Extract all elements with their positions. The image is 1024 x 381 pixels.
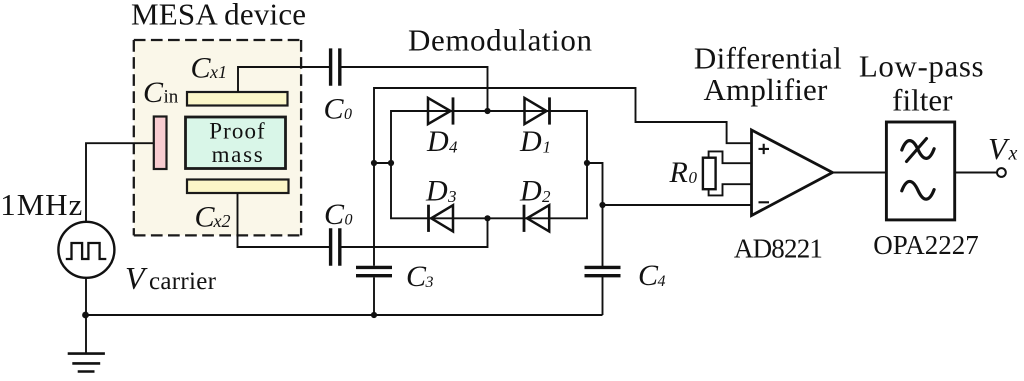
bottom rail wire (86, 314, 603, 316)
svg-text:0: 0 (344, 106, 352, 123)
svg-text:D: D (426, 125, 449, 158)
capacitor C3 (356, 267, 392, 275)
sine symbol (902, 181, 934, 199)
low-pass filter box (886, 122, 954, 220)
svg-text:filter: filter (892, 82, 953, 117)
junction C3 bottom (371, 312, 377, 318)
svg-text:MESA device: MESA device (131, 0, 306, 32)
svg-text:carrier: carrier (149, 268, 217, 295)
svg-text:AD8221: AD8221 (734, 233, 822, 263)
wire: op-amp output to filter (833, 172, 887, 174)
capacitor C4 (585, 267, 621, 275)
svg-text:C: C (195, 201, 216, 234)
op-amp U1 triangle (752, 130, 833, 216)
wire: bridge right to C4 and minus input (587, 163, 751, 315)
svg-text:2: 2 (542, 187, 551, 206)
junction bridge left (388, 160, 394, 166)
svg-text:x: x (1008, 143, 1018, 165)
svg-text:C: C (406, 260, 427, 293)
diode D4 (428, 97, 453, 124)
junction bridge top center (484, 108, 490, 114)
minus sign (759, 201, 770, 203)
wire: source to Cin plate (86, 143, 154, 222)
svg-text:D: D (519, 175, 542, 208)
svg-text:R: R (669, 156, 688, 189)
diode D2 (524, 205, 549, 232)
svg-text:3: 3 (425, 274, 434, 291)
svg-text:0: 0 (345, 212, 353, 229)
svg-text:4: 4 (658, 273, 666, 290)
capacitor C0 bottom (331, 228, 340, 266)
wire: left outer vertical and top feed to plus input (374, 88, 751, 266)
svg-text:mass: mass (212, 142, 265, 167)
wire: filter output (955, 172, 997, 174)
diode D3 (429, 205, 454, 232)
junction minus branch (599, 202, 605, 208)
capacitor Cin plate (154, 117, 167, 170)
diode D1 (525, 97, 550, 124)
MESA device dashed enclosure (134, 40, 301, 235)
output terminal circle (997, 168, 1006, 177)
svg-text:x2: x2 (213, 211, 231, 231)
svg-text:4: 4 (449, 138, 458, 157)
junction bridge right (584, 160, 590, 166)
svg-text:1MHz: 1MHz (0, 187, 83, 222)
crossed sine symbol (902, 139, 934, 162)
svg-text:C: C (324, 93, 345, 126)
svg-text:V: V (988, 131, 1010, 166)
wire: bridge left stub (374, 162, 391, 164)
svg-text:3: 3 (447, 187, 457, 206)
wire: Cx1 to C0 top to bridge top (238, 67, 488, 111)
junction bridge bottom center (484, 215, 490, 221)
resistor R0 (703, 151, 751, 195)
svg-text:1: 1 (543, 138, 552, 157)
wire: Cx2 to C0 bottom to bridge bottom (238, 193, 488, 247)
svg-text:Proof: Proof (209, 119, 266, 144)
square wave glyph (66, 243, 107, 259)
svg-text:in: in (164, 87, 179, 108)
svg-text:Demodulation: Demodulation (408, 23, 593, 58)
capacitor Cx1 top plate (187, 92, 288, 106)
wire: below C3 to bottom rail (373, 277, 375, 315)
svg-text:D: D (519, 125, 542, 158)
svg-text:0: 0 (689, 168, 698, 187)
svg-text:Low-pass: Low-pass (859, 48, 984, 83)
svg-text:C: C (324, 198, 345, 231)
proof mass block (186, 117, 286, 169)
junction ground node (82, 312, 89, 319)
svg-text:D: D (425, 175, 448, 208)
capacitor Cx2 bottom plate (187, 180, 289, 194)
plus sign (759, 144, 770, 154)
ground (68, 315, 105, 372)
capacitor C0 top (331, 48, 340, 85)
svg-text:x1: x1 (209, 62, 227, 82)
diode bridge rectangle (391, 111, 587, 218)
svg-text:OPA2227: OPA2227 (873, 230, 979, 260)
source V carrier circle (58, 222, 114, 278)
svg-text:Amplifier: Amplifier (703, 72, 828, 107)
svg-text:Differential: Differential (694, 40, 842, 75)
svg-text:C: C (191, 52, 212, 85)
svg-text:C: C (143, 76, 164, 109)
svg-text:C: C (638, 259, 659, 292)
junction outer left (371, 160, 377, 166)
wire: source down to ground junction (85, 278, 87, 315)
